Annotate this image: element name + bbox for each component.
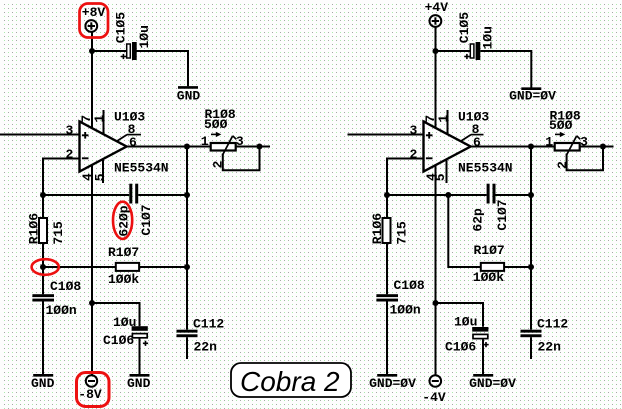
node junction V+ / C105 left — [89, 48, 95, 54]
wire R106 to C108 right — [386, 243, 388, 295]
svg-text:R1Ø6: R1Ø6 — [370, 213, 385, 244]
svg-text:1ØØk: 1ØØk — [108, 272, 139, 287]
capacitor C105 (right, polarized 10u) — [457, 12, 495, 60]
svg-text:R1Ø7: R1Ø7 — [474, 243, 505, 258]
capacitor C106 left (polarized 10u) — [103, 315, 148, 348]
op-amp U103 left — [80, 109, 169, 175]
trimmer R108 left — [201, 107, 244, 168]
svg-text:1Øu: 1Øu — [113, 315, 136, 330]
svg-text:C1Ø7: C1Ø7 — [139, 204, 154, 235]
ground GND bottom-middle left — [127, 375, 151, 391]
power -8V symbol — [78, 375, 102, 402]
node junction feedback/output rail right — [528, 192, 534, 198]
node junction output/rail left — [184, 144, 190, 150]
wire pin2 feedback right — [387, 159, 424, 197]
node junction feedback/pin2 right — [384, 192, 390, 198]
svg-text:7: 7 — [423, 115, 438, 123]
wire R106 top lead left — [42, 195, 44, 219]
capacitor C106 right (polarized 10u) — [445, 315, 489, 355]
svg-text:R1Ø7: R1Ø7 — [108, 245, 139, 260]
wire R108 right lead + output stub right — [580, 146, 614, 148]
svg-text:+4V: +4V — [425, 0, 449, 15]
svg-text:3: 3 — [236, 134, 244, 149]
wire C107 to output rail left — [138, 194, 187, 196]
wire feedback node to C107 left — [43, 194, 129, 196]
svg-text:6: 6 — [129, 135, 137, 150]
svg-text:62p: 62p — [471, 208, 486, 232]
svg-text:1ØØn: 1ØØn — [46, 303, 77, 318]
svg-text:C1Ø5: C1Ø5 — [113, 12, 128, 43]
ground GND=0V bottom-middle right — [469, 375, 516, 391]
wire R106 bottom lead left — [42, 243, 44, 269]
op-amp pin 1 stub right — [436, 110, 451, 135]
svg-text:1ØØk: 1ØØk — [473, 270, 504, 285]
wire output feedback rail left — [186, 147, 188, 330]
red annotation around -8V — [77, 373, 110, 407]
svg-text:5: 5 — [92, 173, 107, 181]
svg-text:2: 2 — [66, 147, 74, 162]
svg-text:1: 1 — [201, 134, 209, 149]
wire pin2 feedback left — [43, 159, 80, 197]
wire op-amp output left — [127, 146, 211, 148]
resistor R107 right — [473, 243, 505, 285]
node junction R107 tap right — [445, 192, 451, 198]
wire R107 left lead — [43, 266, 116, 268]
wire R107 tap drop right — [448, 195, 481, 267]
trimmer R108 right — [545, 109, 588, 169]
svg-text:1: 1 — [436, 115, 451, 123]
wire C106 branch right — [436, 303, 484, 327]
wire V+ rail pin7 feed left — [91, 32, 93, 128]
svg-text:GND: GND — [177, 89, 201, 104]
red annotation around +8V — [80, 4, 109, 38]
svg-text:7: 7 — [79, 115, 94, 123]
node junction R108 loop left — [257, 144, 263, 150]
wire output feedback rail right — [530, 147, 532, 330]
svg-text:C1Ø6: C1Ø6 — [103, 333, 134, 348]
ground GND top left — [177, 87, 201, 103]
svg-text:Cobra 2: Cobra 2 — [240, 366, 340, 397]
red annotation around junction left — [32, 259, 59, 275]
red annotation around 620p — [113, 202, 132, 239]
svg-text:GND=ØV: GND=ØV — [369, 376, 416, 391]
power -4V symbol — [422, 375, 446, 405]
title frame Cobra 2 — [231, 363, 351, 397]
wire R106 top lead right — [386, 195, 388, 219]
wire R108 pin2 loop right — [567, 147, 603, 170]
svg-text:GND: GND — [127, 376, 151, 391]
svg-text:5ØØ: 5ØØ — [204, 117, 228, 132]
node junction R107/output rail right — [528, 264, 534, 270]
ground GND=0V bottom-left right — [369, 375, 416, 391]
svg-text:C1Ø5: C1Ø5 — [457, 12, 472, 43]
svg-text:GND=ØV: GND=ØV — [509, 89, 556, 104]
resistor R107 left — [108, 245, 139, 287]
node junction output/rail right — [528, 144, 534, 150]
svg-text:NE5534N: NE5534N — [114, 160, 169, 175]
wire V+ to C105 right — [435, 50, 471, 52]
svg-text:1: 1 — [545, 134, 553, 149]
svg-text:1Øu: 1Øu — [480, 26, 495, 49]
svg-text:C1Ø8: C1Ø8 — [394, 278, 425, 293]
svg-text:3: 3 — [580, 134, 588, 149]
wire R107 right lead right — [504, 266, 531, 268]
op-amp pin 8 stub right — [460, 122, 483, 142]
wire C106 branch left — [92, 303, 140, 326]
wire V- rail pin4 left — [91, 164, 93, 375]
node junction feedback/pin2 left — [40, 192, 46, 198]
svg-text:715: 715 — [51, 221, 66, 245]
node junction feedback/output rail left — [184, 192, 190, 198]
capacitor C107 (left, 620p) — [116, 184, 154, 237]
resistor R106 right — [370, 213, 409, 245]
resistor R106 left — [27, 213, 66, 245]
wire C107 to output rail right — [495, 194, 531, 196]
svg-text:2: 2 — [410, 147, 418, 162]
node junction R107/output rail left — [184, 264, 190, 270]
svg-text:R1Ø6: R1Ø6 — [27, 213, 42, 244]
svg-text:3: 3 — [410, 123, 418, 138]
op-amp pin 5 stub left — [92, 160, 107, 183]
svg-text:GND: GND — [31, 376, 55, 391]
op-amp U103 right — [424, 109, 513, 175]
wire R107 right lead — [139, 266, 187, 268]
wire C105 to GND corner right — [480, 51, 531, 88]
svg-text:2: 2 — [211, 160, 226, 168]
svg-text:C112: C112 — [193, 317, 224, 332]
wire C106 to ground right — [482, 339, 484, 374]
ground GND bottom-left — [31, 375, 55, 391]
svg-text:1: 1 — [92, 115, 107, 123]
wire V- rail pin4 right — [435, 164, 437, 375]
svg-text:1Øu: 1Øu — [454, 315, 477, 330]
wire op-amp output right — [470, 146, 555, 148]
wire R108 pin2 loop left — [223, 147, 260, 170]
wire C108 to ground right — [386, 301, 388, 374]
svg-text:22n: 22n — [194, 340, 218, 355]
svg-text:1ØØn: 1ØØn — [390, 303, 421, 318]
svg-text:C1Ø6: C1Ø6 — [445, 340, 476, 355]
svg-text:5ØØ: 5ØØ — [549, 118, 573, 133]
wire C112 bottom stub left — [186, 337, 188, 359]
svg-text:+8V: +8V — [82, 5, 106, 20]
svg-text:-8V: -8V — [78, 387, 102, 402]
op-amp pin 8 stub left — [116, 122, 141, 142]
capacitor C105 (left, polarized 10u) — [113, 12, 151, 60]
node junction V-/C106 left — [89, 300, 95, 306]
wire C108 top lead left — [42, 267, 44, 294]
node junction V-/C106 right — [433, 300, 439, 306]
node junction V+ / C105 right — [433, 48, 439, 54]
op-amp pin 5 stub right — [433, 160, 448, 183]
svg-text:3: 3 — [66, 123, 74, 138]
svg-text:C112: C112 — [537, 317, 568, 332]
svg-text:2: 2 — [555, 161, 570, 169]
ground GND=0V top right — [509, 89, 556, 104]
wire input pin3 left — [0, 134, 80, 136]
capacitor C108 right (100n) — [376, 278, 425, 318]
capacitor C107 (right, 62p) — [471, 184, 510, 232]
node junction R106/R107/C108 left — [40, 264, 46, 270]
capacitor C112 left (22n) — [177, 317, 225, 355]
wire R108 right lead + output stub left — [236, 146, 270, 148]
wire V+ rail pin7 feed right — [435, 27, 437, 129]
wire C105 to GND corner left — [136, 51, 188, 86]
svg-text:6: 6 — [473, 135, 481, 150]
svg-text:5: 5 — [433, 173, 448, 181]
svg-text:22n: 22n — [538, 340, 562, 355]
wire C108 to ground left — [42, 301, 44, 374]
svg-text:715: 715 — [395, 221, 410, 245]
wire C112 bottom stub right — [530, 337, 532, 359]
capacitor C108 left (100n) — [32, 279, 81, 318]
svg-text:GND=ØV: GND=ØV — [469, 376, 516, 391]
node junction R108 loop right — [600, 144, 606, 150]
svg-text:C1Ø7: C1Ø7 — [495, 199, 510, 230]
wire C106 to ground left — [139, 338, 141, 375]
svg-text:-4V: -4V — [422, 390, 446, 405]
wire input pin3 right — [348, 134, 424, 136]
svg-text:1Øu: 1Øu — [137, 25, 152, 48]
wire feedback node to C107 right — [387, 194, 487, 196]
svg-text:NE5534N: NE5534N — [458, 160, 513, 175]
svg-text:C1Ø8: C1Ø8 — [50, 279, 81, 294]
op-amp pin 1 stub left — [92, 110, 107, 135]
power +4V symbol — [425, 0, 449, 27]
power +8V symbol — [82, 5, 106, 32]
wire V+ to C105 left — [91, 50, 127, 52]
capacitor C112 right (22n) — [521, 317, 569, 355]
